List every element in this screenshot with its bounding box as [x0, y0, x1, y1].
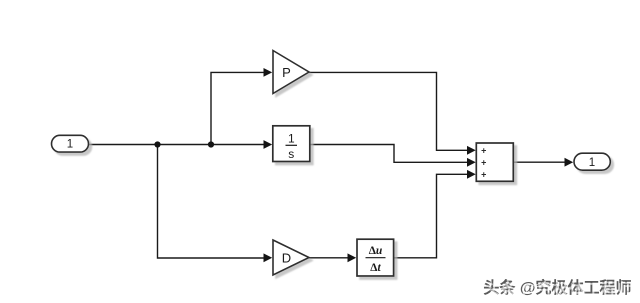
svg-text:1: 1 [288, 131, 295, 145]
svg-text:Δt: Δt [370, 262, 381, 274]
svg-text:头条 @究极体工程师: 头条 @究极体工程师 [485, 280, 633, 299]
svg-text:+: + [481, 157, 486, 167]
svg-text:D: D [282, 251, 291, 266]
svg-text:1: 1 [589, 157, 595, 169]
svg-text:Δu: Δu [369, 245, 383, 257]
svg-text:+: + [481, 145, 486, 155]
svg-text:1: 1 [67, 139, 73, 151]
svg-text:+: + [481, 169, 486, 179]
svg-text:P: P [282, 65, 291, 80]
svg-text:s: s [288, 147, 294, 161]
